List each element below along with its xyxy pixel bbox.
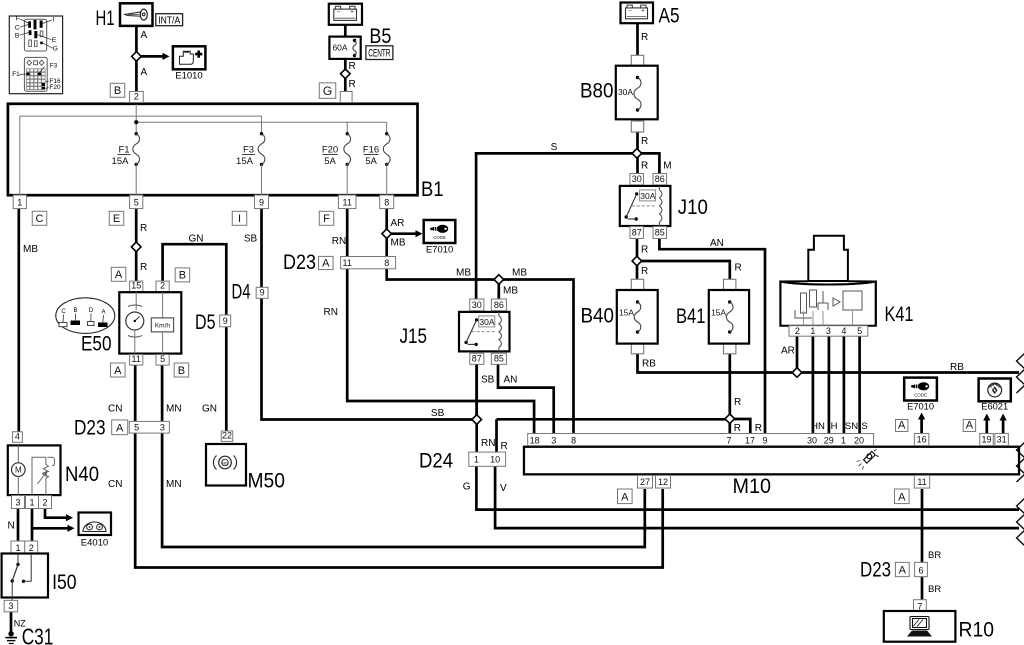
- svg-text:30: 30: [472, 300, 482, 310]
- svg-text:B: B: [15, 32, 19, 39]
- svg-text:3: 3: [826, 326, 831, 336]
- svg-text:B: B: [73, 308, 77, 314]
- svg-text:3: 3: [160, 423, 165, 433]
- svg-text:18: 18: [530, 435, 540, 445]
- svg-text:R: R: [755, 423, 762, 434]
- svg-text:MB: MB: [512, 268, 527, 279]
- svg-text:S: S: [861, 421, 867, 432]
- svg-text:MB: MB: [456, 268, 471, 279]
- svg-text:10: 10: [490, 455, 500, 465]
- svg-text:N40: N40: [65, 463, 99, 486]
- svg-text:15: 15: [131, 281, 141, 291]
- svg-text:87: 87: [632, 228, 642, 238]
- svg-text:27: 27: [640, 477, 650, 487]
- svg-text:86: 86: [494, 300, 504, 310]
- svg-text:B1: B1: [421, 178, 444, 201]
- svg-text:15A: 15A: [619, 308, 634, 318]
- svg-text:K41: K41: [885, 303, 914, 326]
- svg-text:R: R: [501, 441, 508, 452]
- svg-text:1: 1: [15, 543, 20, 553]
- svg-text:16: 16: [917, 435, 927, 445]
- svg-text:RN: RN: [481, 438, 495, 449]
- svg-text:2: 2: [29, 543, 34, 553]
- svg-text:A5: A5: [659, 4, 680, 27]
- svg-text:ABS: ABS: [222, 462, 230, 466]
- svg-text:A: A: [116, 422, 124, 434]
- svg-text:5: 5: [160, 354, 165, 364]
- svg-text:F1: F1: [118, 145, 129, 156]
- svg-text:A: A: [899, 564, 907, 576]
- svg-text:8: 8: [384, 258, 389, 268]
- svg-text:F: F: [323, 213, 330, 225]
- svg-text:G: G: [323, 84, 332, 98]
- svg-text:1: 1: [29, 498, 34, 508]
- svg-text:GN: GN: [189, 234, 204, 245]
- svg-text:E7010: E7010: [426, 244, 453, 255]
- svg-text:A: A: [966, 419, 974, 431]
- svg-text:GN: GN: [202, 404, 217, 415]
- svg-text:F3: F3: [50, 62, 58, 69]
- svg-text:B40: B40: [581, 305, 615, 328]
- svg-text:SN: SN: [845, 421, 858, 432]
- svg-text:R: R: [140, 262, 147, 273]
- svg-text:20: 20: [854, 435, 864, 445]
- svg-text:11: 11: [917, 477, 926, 487]
- svg-text:CENTR: CENTR: [368, 48, 390, 60]
- svg-text:7: 7: [726, 435, 731, 445]
- svg-text:C31: C31: [22, 623, 54, 645]
- svg-text:E6021: E6021: [981, 402, 1008, 412]
- svg-text:E1010: E1010: [175, 70, 202, 81]
- svg-text:15A: 15A: [711, 308, 726, 318]
- svg-text:31: 31: [997, 435, 1007, 445]
- svg-text:BR: BR: [928, 584, 941, 595]
- svg-text:F1: F1: [12, 71, 20, 78]
- svg-text:M: M: [663, 161, 671, 172]
- svg-text:RB: RB: [950, 362, 964, 373]
- svg-text:AN: AN: [504, 375, 518, 386]
- svg-text:A: A: [114, 365, 122, 377]
- svg-text:RN: RN: [324, 307, 338, 318]
- svg-text:G: G: [463, 482, 471, 493]
- svg-text:M10: M10: [733, 475, 772, 498]
- svg-text:H: H: [831, 421, 838, 432]
- svg-text:I: I: [238, 213, 241, 225]
- svg-text:2: 2: [42, 498, 47, 508]
- svg-text:E: E: [52, 37, 57, 44]
- svg-text:D5: D5: [195, 311, 216, 334]
- svg-text:SB: SB: [431, 408, 445, 419]
- svg-text:29: 29: [824, 435, 834, 445]
- svg-text:86: 86: [655, 174, 665, 184]
- svg-text:N: N: [8, 521, 15, 532]
- svg-text:C: C: [15, 24, 20, 31]
- svg-text:30: 30: [807, 435, 817, 445]
- svg-text:A: A: [141, 30, 148, 41]
- svg-text:5: 5: [134, 198, 139, 208]
- svg-text:BR: BR: [928, 550, 941, 561]
- svg-text:B: B: [114, 85, 121, 97]
- svg-text:9: 9: [259, 198, 264, 208]
- svg-text:−: −: [337, 10, 341, 16]
- svg-text:MN: MN: [166, 404, 182, 415]
- svg-text:30A: 30A: [640, 191, 655, 201]
- svg-text:D23: D23: [860, 559, 891, 582]
- svg-text:A: A: [322, 257, 330, 269]
- svg-text:D23: D23: [283, 251, 316, 274]
- svg-text:B41: B41: [676, 305, 706, 328]
- svg-text:HN: HN: [811, 421, 825, 432]
- svg-text:D24: D24: [419, 450, 453, 473]
- svg-text:C: C: [36, 213, 44, 225]
- svg-text:AR: AR: [391, 218, 405, 229]
- svg-text:J15: J15: [400, 325, 428, 348]
- svg-text:B: B: [179, 270, 186, 282]
- svg-text:E50: E50: [81, 333, 112, 356]
- svg-text:A: A: [898, 419, 906, 431]
- svg-text:1: 1: [17, 198, 22, 208]
- svg-text:R: R: [349, 79, 356, 90]
- svg-text:30: 30: [632, 174, 642, 184]
- svg-text:2: 2: [160, 281, 165, 291]
- svg-text:3: 3: [551, 435, 556, 445]
- svg-text:CN: CN: [108, 404, 122, 415]
- svg-text:M50: M50: [248, 470, 286, 493]
- svg-text:B80: B80: [580, 80, 614, 103]
- svg-text:9: 9: [223, 316, 228, 326]
- svg-text:6: 6: [918, 566, 923, 576]
- svg-text:F: F: [16, 16, 20, 23]
- svg-text:8: 8: [384, 198, 389, 208]
- svg-text:MB: MB: [391, 238, 406, 249]
- svg-text:19: 19: [981, 435, 991, 445]
- svg-text:+: +: [350, 10, 354, 16]
- svg-text:CODE: CODE: [914, 392, 927, 397]
- svg-text:E: E: [113, 213, 120, 225]
- svg-text:R: R: [641, 266, 648, 277]
- svg-text:5A: 5A: [324, 156, 336, 167]
- svg-text:11: 11: [343, 198, 352, 208]
- svg-text:4: 4: [841, 326, 846, 336]
- svg-text:C: C: [61, 309, 66, 315]
- svg-text:1: 1: [474, 455, 479, 465]
- svg-text:F16: F16: [363, 145, 379, 156]
- svg-text:60A: 60A: [332, 43, 347, 53]
- svg-text:R: R: [641, 136, 648, 147]
- svg-text:2: 2: [795, 326, 800, 336]
- svg-text:R: R: [641, 161, 648, 172]
- svg-text:D: D: [89, 308, 94, 314]
- svg-text:22: 22: [222, 430, 232, 440]
- svg-text:B: B: [178, 365, 185, 377]
- svg-text:R: R: [641, 32, 648, 43]
- svg-text:AN: AN: [710, 238, 724, 249]
- svg-text:85: 85: [655, 228, 665, 238]
- svg-text:−: −: [628, 9, 632, 15]
- svg-text:J10: J10: [678, 196, 708, 219]
- svg-text:H1: H1: [96, 7, 115, 30]
- svg-text:5: 5: [857, 326, 862, 336]
- svg-text:11: 11: [343, 258, 352, 268]
- svg-text:I50: I50: [52, 571, 77, 594]
- svg-text:SB: SB: [481, 375, 495, 386]
- svg-text:SB: SB: [244, 234, 258, 245]
- svg-text:R: R: [641, 245, 648, 256]
- svg-text:I: I: [53, 17, 55, 24]
- svg-text:R: R: [734, 397, 741, 408]
- svg-text:15A: 15A: [236, 156, 254, 167]
- svg-text:F20: F20: [49, 84, 61, 91]
- svg-text:RB: RB: [642, 359, 656, 370]
- svg-text:87: 87: [472, 353, 482, 363]
- svg-text:8: 8: [571, 435, 576, 445]
- svg-text:B5: B5: [369, 25, 391, 48]
- svg-text:4: 4: [15, 431, 20, 441]
- svg-text:D23: D23: [74, 417, 106, 440]
- svg-text:R: R: [735, 263, 742, 274]
- svg-text:G: G: [53, 45, 58, 52]
- svg-text:Km/h: Km/h: [155, 322, 171, 329]
- svg-text:+: +: [641, 9, 645, 15]
- svg-text:S: S: [551, 142, 558, 153]
- svg-text:9: 9: [762, 435, 767, 445]
- svg-text:A: A: [898, 491, 906, 503]
- svg-text:AR: AR: [781, 346, 795, 357]
- svg-text:A: A: [621, 491, 629, 503]
- svg-text:1: 1: [841, 435, 846, 445]
- svg-text:11: 11: [132, 354, 141, 364]
- svg-text:E4010: E4010: [81, 538, 108, 549]
- svg-text:RN: RN: [332, 236, 346, 247]
- svg-text:R10: R10: [959, 619, 995, 642]
- svg-text:15A: 15A: [112, 156, 130, 167]
- svg-text:9: 9: [260, 287, 265, 297]
- svg-text:V: V: [500, 483, 507, 494]
- svg-text:1: 1: [810, 326, 815, 336]
- svg-text:F20: F20: [322, 145, 338, 156]
- svg-text:INT/A: INT/A: [158, 14, 180, 26]
- svg-text:F3: F3: [243, 145, 254, 156]
- svg-text:M: M: [15, 466, 22, 475]
- svg-text:5A: 5A: [365, 156, 377, 167]
- svg-text:85: 85: [494, 353, 504, 363]
- svg-text:A: A: [141, 67, 148, 78]
- svg-text:A: A: [115, 269, 123, 281]
- svg-text:D4: D4: [232, 280, 251, 303]
- svg-text:R: R: [140, 223, 147, 234]
- svg-text:30A: 30A: [618, 87, 633, 97]
- svg-text:30A: 30A: [479, 317, 494, 327]
- svg-text:R: R: [349, 61, 356, 72]
- svg-text:R: R: [734, 423, 741, 434]
- svg-text:MB: MB: [503, 286, 518, 297]
- svg-text:12: 12: [658, 477, 668, 487]
- svg-text:MB: MB: [23, 244, 38, 255]
- svg-text:A: A: [101, 310, 105, 316]
- svg-text:E7010: E7010: [907, 402, 934, 412]
- svg-text:5: 5: [134, 423, 139, 433]
- svg-text:CODE: CODE: [433, 235, 446, 240]
- svg-text:17: 17: [745, 435, 755, 445]
- svg-text:3: 3: [8, 601, 13, 611]
- svg-text:3: 3: [15, 498, 20, 508]
- svg-text:2: 2: [134, 92, 139, 102]
- svg-text:MN: MN: [166, 479, 182, 490]
- svg-text:CN: CN: [108, 479, 122, 490]
